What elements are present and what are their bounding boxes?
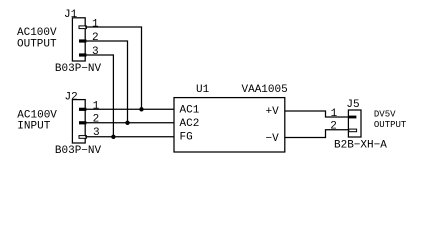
svg-text:INPUT: INPUT xyxy=(17,120,50,132)
wire J1 pin1 to node A xyxy=(85,27,141,109)
svg-text:1: 1 xyxy=(331,108,338,120)
svg-text:VAA1005: VAA1005 xyxy=(242,84,288,96)
wire J1 pin3 to node C xyxy=(85,55,113,137)
J5 pin 2 tab (hollow) xyxy=(349,129,357,132)
svg-text:OUTPUT: OUTPUT xyxy=(374,120,407,130)
J1 pin 2 tab xyxy=(79,39,86,42)
IC U1 body (VAA1005 power module) xyxy=(174,98,285,152)
svg-text:−V: −V xyxy=(266,133,280,145)
connector J5 body xyxy=(348,110,361,137)
svg-text:J1: J1 xyxy=(64,9,78,21)
svg-text:1: 1 xyxy=(92,18,99,30)
wire J1 pin2 to node B xyxy=(85,41,127,123)
svg-text:2: 2 xyxy=(330,121,337,133)
wire U1 +V to J5 pin1 xyxy=(285,111,349,117)
wire J2 pin1 to U1 AC1 xyxy=(85,108,174,110)
J2 pin 2 tab xyxy=(79,121,86,124)
junction node C xyxy=(111,135,115,139)
svg-text:J5: J5 xyxy=(346,99,359,111)
wire J2 pin2 to U1 AC2 xyxy=(85,122,174,124)
svg-text:2: 2 xyxy=(92,32,99,44)
svg-text:AC100V: AC100V xyxy=(17,27,57,39)
J2 pin 3 tab (hollow) xyxy=(79,136,86,139)
svg-text:OUTPUT: OUTPUT xyxy=(17,38,57,50)
svg-text:B03P−NV: B03P−NV xyxy=(55,145,102,157)
wire U1 -V to J5 pin2 xyxy=(285,130,349,138)
connector J2 body xyxy=(72,100,85,143)
svg-text:U1: U1 xyxy=(196,84,210,96)
svg-text:+V: +V xyxy=(266,106,280,118)
svg-text:AC1: AC1 xyxy=(180,104,200,116)
svg-text:1: 1 xyxy=(93,100,100,112)
J1 pin 3 tab xyxy=(79,53,86,56)
svg-text:DV5V: DV5V xyxy=(374,110,396,120)
junction node A xyxy=(139,107,143,111)
connector J1 body xyxy=(72,18,85,61)
J2 pin 1 tab xyxy=(79,108,86,111)
J1 pin 1 tab (hollow) xyxy=(79,26,86,29)
svg-text:B03P−NV: B03P−NV xyxy=(55,63,102,75)
svg-text:J2: J2 xyxy=(65,91,78,103)
svg-text:B2B−XH−A: B2B−XH−A xyxy=(334,140,387,152)
junction node B xyxy=(125,121,129,125)
svg-text:FG: FG xyxy=(180,131,193,143)
svg-text:3: 3 xyxy=(92,46,99,58)
svg-text:2: 2 xyxy=(93,114,100,126)
svg-text:AC2: AC2 xyxy=(180,118,200,130)
wire J2 pin3 to U1 FG xyxy=(85,136,174,138)
J5 pin 1 tab xyxy=(348,116,356,119)
